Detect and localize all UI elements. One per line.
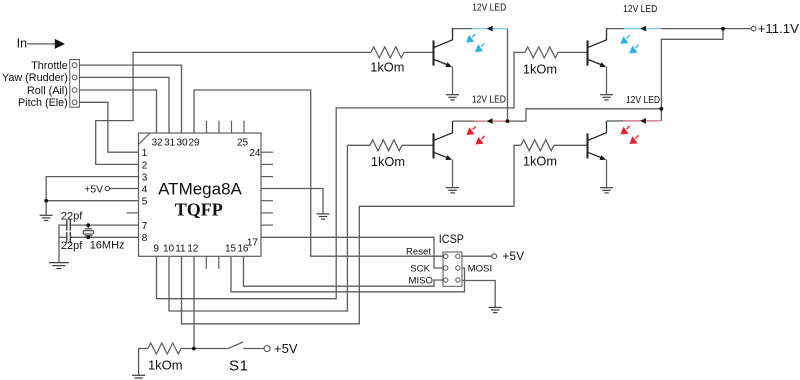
svg-text:Roll (Ail): Roll (Ail) (27, 85, 68, 97)
svg-text:31: 31 (164, 137, 176, 148)
svg-text:1kOm: 1kOm (523, 62, 557, 77)
svg-text:+5V: +5V (274, 341, 298, 356)
svg-text:TQFP: TQFP (175, 200, 223, 220)
svg-text:12V LED: 12V LED (626, 94, 660, 106)
svg-text:1kOm: 1kOm (371, 154, 405, 169)
svg-text:9: 9 (153, 244, 159, 255)
svg-text:22pf: 22pf (61, 240, 83, 252)
svg-text:Pitch (Ele): Pitch (Ele) (18, 97, 68, 109)
svg-text:32: 32 (152, 137, 164, 148)
svg-text:1: 1 (142, 148, 148, 159)
svg-text:12V LED: 12V LED (623, 3, 657, 15)
svg-text:ATMega8A: ATMega8A (158, 179, 242, 198)
svg-text:Reset: Reset (406, 247, 431, 258)
svg-text:25: 25 (237, 137, 249, 148)
svg-text:16MHz: 16MHz (90, 239, 125, 251)
svg-text:29: 29 (188, 137, 200, 148)
svg-text:ICSP: ICSP (439, 233, 464, 246)
svg-text:1kOm: 1kOm (523, 154, 557, 169)
svg-text:30: 30 (176, 137, 188, 148)
svg-text:MOSI: MOSI (468, 264, 493, 275)
svg-text:12V LED: 12V LED (472, 94, 506, 106)
svg-text:17: 17 (247, 238, 259, 249)
svg-text:1kOm: 1kOm (370, 60, 404, 75)
svg-text:10: 10 (163, 244, 175, 255)
svg-text:3: 3 (142, 173, 148, 184)
svg-text:24: 24 (249, 148, 261, 159)
svg-text:12: 12 (187, 244, 199, 255)
svg-text:7: 7 (142, 221, 148, 232)
svg-text:SCK: SCK (410, 264, 430, 275)
svg-text:4: 4 (142, 184, 148, 195)
svg-text:+5V: +5V (502, 249, 524, 263)
svg-text:Throttle: Throttle (31, 60, 68, 72)
svg-text:MISO: MISO (408, 276, 433, 287)
svg-text:2: 2 (142, 160, 148, 171)
svg-text:In: In (17, 37, 27, 51)
svg-text:8: 8 (142, 233, 148, 244)
svg-text:12V LED: 12V LED (472, 2, 506, 14)
svg-text:11: 11 (175, 244, 186, 255)
svg-text:S1: S1 (229, 358, 249, 375)
svg-text:5: 5 (142, 197, 148, 208)
svg-text:+11.1V: +11.1V (758, 21, 799, 36)
svg-text:Yaw (Rudder): Yaw (Rudder) (2, 72, 68, 84)
svg-text:+5V: +5V (84, 184, 103, 195)
svg-text:16: 16 (237, 244, 249, 255)
svg-text:1kOm: 1kOm (148, 358, 183, 373)
svg-text:22pf: 22pf (61, 211, 83, 223)
svg-text:15: 15 (225, 244, 237, 255)
